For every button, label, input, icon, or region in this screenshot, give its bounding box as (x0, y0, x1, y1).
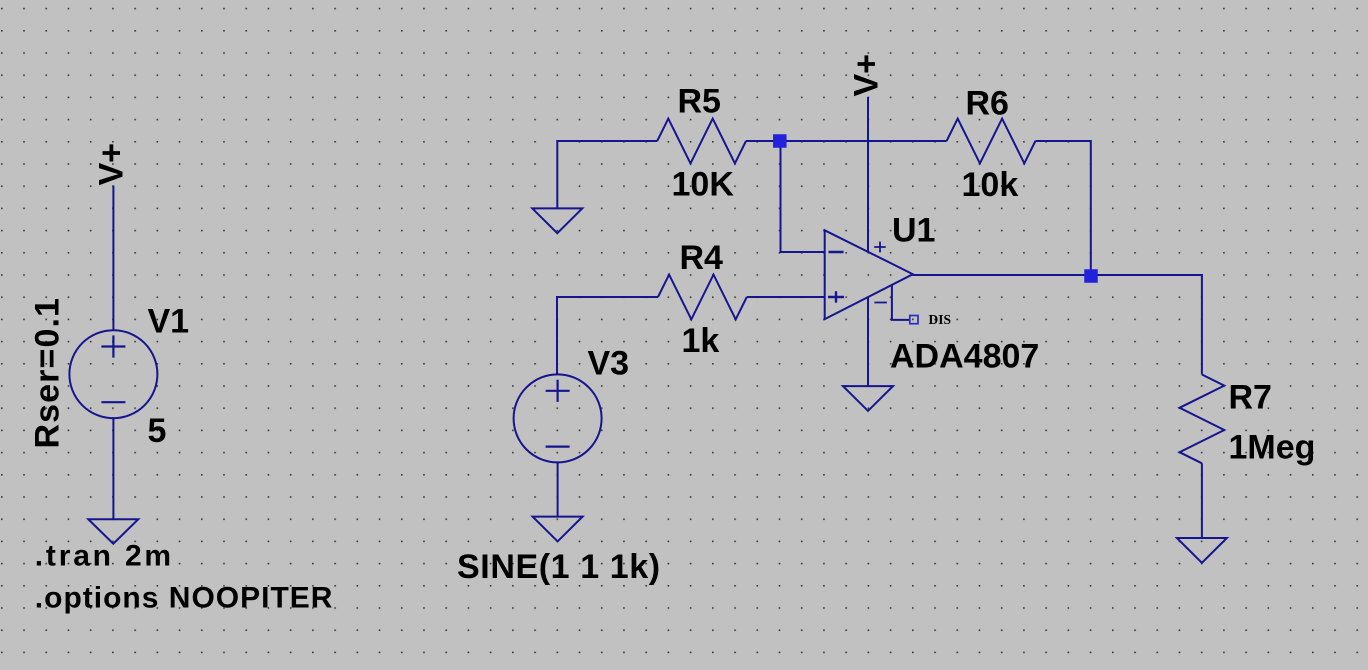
svg-text:ADA4807: ADA4807 (890, 338, 1039, 376)
wire DIS pin (892, 286, 910, 320)
ground (R5 left) (532, 208, 582, 233)
wire R4 to non-inverting input (747, 296, 825, 298)
pin DIS square (910, 316, 918, 324)
wire V1 top (112, 186, 114, 331)
svg-text:V1: V1 (148, 303, 190, 341)
voltage source V3 (514, 374, 602, 462)
pin label DIS (929, 312, 952, 327)
voltage source V1 (69, 330, 157, 418)
wire node A to inverting input (781, 141, 825, 252)
junction node B (1084, 269, 1098, 283)
svg-text:10k: 10k (962, 166, 1019, 204)
label R7 (1229, 379, 1272, 417)
wire R6 right to node B (1035, 141, 1090, 275)
resistor R7 (1180, 375, 1225, 464)
ground (U1) (843, 386, 893, 411)
label V3 (588, 345, 630, 383)
svg-text:1Meg: 1Meg (1229, 429, 1316, 467)
value SINE(1 1 1k) (457, 548, 661, 586)
svg-text:.options NOOPITER: .options NOOPITER (35, 582, 334, 615)
value 1k (682, 322, 720, 360)
svg-text:V3: V3 (588, 345, 630, 383)
value ADA4807 (890, 338, 1039, 376)
directive .tran 2m (35, 540, 174, 573)
svg-text:R5: R5 (678, 83, 721, 121)
wire V+ supply to U1 (867, 97, 869, 251)
value 5 (148, 412, 167, 450)
wire U1 output to R7 (913, 275, 1202, 375)
wire V1 bottom (112, 417, 114, 519)
svg-text:U1: U1 (892, 211, 935, 249)
ground (R7) (1177, 538, 1227, 563)
ground (V3) (533, 517, 583, 542)
svg-text:V+: V+ (92, 143, 130, 186)
wire R7 bottom (1201, 463, 1203, 538)
resistor R6 (947, 119, 1036, 164)
ground (V1) (88, 519, 138, 544)
directive .options NOOPITER (35, 582, 334, 615)
wire R4 left lead and V3 top (557, 297, 658, 375)
value 10K (672, 166, 735, 204)
svg-text:10K: 10K (672, 166, 735, 204)
wire V3 bottom (557, 462, 559, 516)
label V+ (U1 supply net) (848, 54, 886, 97)
label R5 (678, 83, 721, 121)
label Rser=0.1 (29, 297, 67, 449)
svg-text:5: 5 (148, 412, 167, 450)
label V1 (148, 303, 190, 341)
svg-text:R4: R4 (680, 239, 724, 277)
wire R5 to node A and R6 left lead (746, 140, 947, 142)
svg-text:Rser=0.1: Rser=0.1 (29, 297, 67, 449)
label V+ (V1 net) (92, 143, 130, 186)
svg-text:R7: R7 (1229, 379, 1272, 417)
label R6 (966, 85, 1009, 123)
svg-text:SINE(1 1 1k): SINE(1 1 1k) (457, 548, 661, 586)
junction node A (773, 134, 787, 148)
svg-text:1k: 1k (682, 322, 720, 360)
svg-text:DIS: DIS (929, 312, 952, 327)
label U1 (892, 211, 935, 249)
wire R5 ground lead (557, 141, 657, 208)
svg-text:.tran 2m: .tran 2m (35, 540, 174, 573)
value 10k (962, 166, 1019, 204)
wire U1 negative supply to ground (867, 298, 869, 386)
svg-text:R6: R6 (966, 85, 1009, 123)
resistor R4 (658, 275, 747, 320)
value 1Meg (1229, 429, 1316, 467)
resistor R5 (657, 119, 746, 164)
label R4 (680, 239, 724, 277)
op-amp U1 (825, 230, 913, 319)
svg-text:V+: V+ (848, 54, 886, 97)
